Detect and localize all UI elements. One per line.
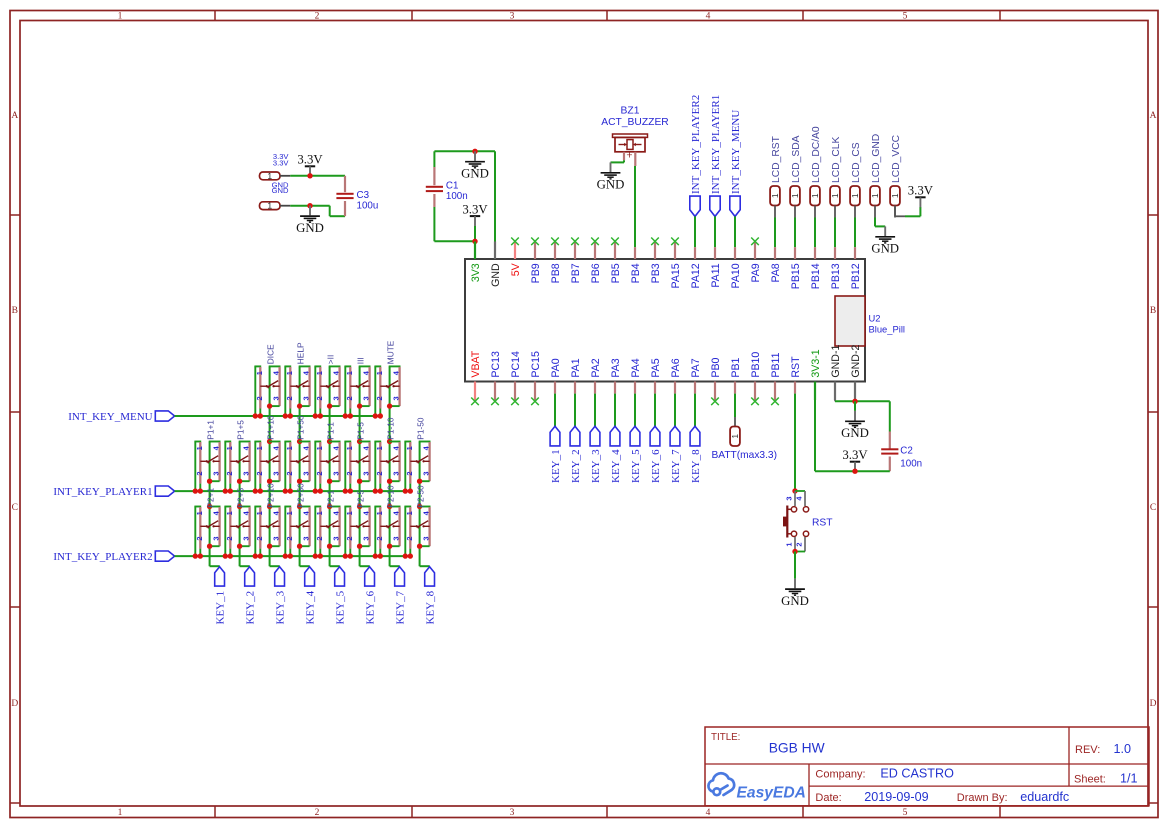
svg-text:P2-10: P2-10: [385, 485, 395, 508]
U2 pin PC13 (bottom): [490, 351, 502, 405]
U2 pin PB1 (bottom): [730, 357, 742, 400]
title block frame: [705, 727, 1149, 806]
junction column KEY_8 at row3 cap: [417, 504, 422, 509]
ground symbol (buzzer): [597, 162, 625, 191]
svg-text:1: 1: [118, 808, 123, 818]
svg-text:1: 1: [225, 511, 234, 515]
wire LCD connector x=795 to pin: [794, 218, 796, 242]
svg-text:1: 1: [255, 371, 264, 375]
svg-text:2019-09-09: 2019-09-09: [864, 790, 928, 804]
svg-text:P2-50: P2-50: [415, 485, 425, 508]
switch SW player1 "P1+50": [283, 442, 311, 494]
wire C1 loop top: [434, 150, 495, 152]
svg-text:INT_KEY_MENU: INT_KEY_MENU: [68, 411, 152, 423]
svg-text:1: 1: [267, 201, 272, 211]
svg-text:KEY_5: KEY_5: [335, 590, 347, 624]
wire GND net horizontal: [835, 400, 890, 402]
svg-text:D: D: [11, 699, 18, 709]
svg-text:1: 1: [345, 446, 354, 450]
U2 pin 3V3-1 (bottom): [810, 349, 822, 400]
junction column KEY_7 at row3 cap: [387, 504, 392, 509]
svg-text:2: 2: [345, 536, 354, 540]
svg-text:KEY_3: KEY_3: [590, 449, 602, 483]
wire INT_KEY_PLAYER2 to pin: [694, 216, 696, 241]
svg-text:3: 3: [272, 536, 281, 540]
svg-text:PB6: PB6: [590, 263, 602, 283]
svg-text:Blue_Pill: Blue_Pill: [869, 323, 905, 334]
svg-text:3: 3: [302, 471, 311, 475]
switch SW player1 "P1-10": [373, 442, 401, 494]
svg-text:3: 3: [212, 471, 221, 475]
svg-text:Date:: Date:: [815, 792, 841, 804]
wire C1 left top: [433, 151, 435, 167]
U2 pin PB13 (top): [830, 241, 842, 289]
svg-text:3: 3: [302, 536, 311, 540]
op-amp U2 body rectangle: [465, 259, 865, 382]
svg-text:2: 2: [315, 536, 324, 540]
svg-text:1: 1: [315, 511, 324, 515]
net flag KEY_3 (under U2): [590, 400, 602, 483]
svg-text:LCD_GND: LCD_GND: [871, 134, 882, 183]
junction 3V3 pin: [472, 239, 477, 244]
switch SW player1 "P1-1": [313, 442, 341, 494]
wire RST button to ground: [794, 552, 796, 579]
svg-text:3: 3: [510, 808, 515, 818]
svg-text:PB4: PB4: [630, 263, 642, 283]
svg-text:1: 1: [870, 193, 880, 198]
svg-text:1: 1: [345, 511, 354, 515]
svg-text:2: 2: [285, 471, 294, 475]
svg-text:INT_KEY_PLAYER1: INT_KEY_PLAYER1: [53, 486, 152, 498]
svg-text:1: 1: [255, 511, 264, 515]
svg-text:PA1: PA1: [570, 358, 582, 377]
frame row letters right: [1150, 111, 1157, 709]
U2 pin PB9 (top): [530, 238, 542, 284]
U2 pin PB6 (top): [590, 238, 602, 284]
svg-text:1: 1: [770, 193, 780, 198]
frame row ticks right: [1148, 215, 1158, 803]
svg-text:3: 3: [785, 496, 794, 500]
switch SW player2 "P2+50": [283, 507, 311, 559]
wire INT_KEY_MENU to pin: [734, 216, 736, 241]
svg-text:GND: GND: [597, 178, 625, 192]
U2 module outline Blue_Pill: [835, 296, 865, 346]
junction RST bottom: [792, 549, 797, 554]
svg-text:PB15: PB15: [790, 263, 802, 289]
svg-text:C: C: [1150, 503, 1156, 513]
net flag INT_KEY_MENU (top): [730, 110, 742, 217]
wire C2 top: [889, 401, 891, 431]
U2 pin PB10 (bottom): [750, 352, 762, 406]
junction column KEY_3 at row3 cap: [267, 504, 272, 509]
U2 pin PB14 (top): [810, 241, 822, 289]
svg-text:KEY_7: KEY_7: [670, 449, 682, 483]
svg-text:1: 1: [267, 171, 272, 181]
svg-text:P2+5: P2+5: [235, 488, 245, 508]
svg-text:PA15: PA15: [670, 263, 682, 288]
svg-text:PA3: PA3: [610, 358, 622, 377]
push button RST: [783, 491, 809, 552]
svg-text:A: A: [11, 111, 18, 121]
svg-text:1: 1: [345, 371, 354, 375]
svg-text:1: 1: [195, 511, 204, 515]
junction GND left: [307, 203, 312, 208]
frame column numbers bottom: [118, 808, 908, 818]
svg-text:3V3: 3V3: [470, 263, 482, 282]
svg-text:GND: GND: [871, 242, 899, 256]
U2 pin PA12 (top): [690, 241, 702, 288]
power 3.3V symbol (C1 loop): [462, 203, 488, 227]
svg-text:P1-10: P1-10: [385, 417, 395, 440]
svg-text:KEY_6: KEY_6: [365, 590, 377, 624]
capacitor C3 value labels: [357, 190, 379, 211]
capacitor C1 value labels: [446, 181, 468, 202]
svg-text:C3: C3: [357, 190, 370, 201]
power 3.3V symbol (left): [297, 153, 323, 177]
svg-text:PB14: PB14: [810, 263, 822, 289]
wire LCD connector x=775 to pin: [774, 218, 776, 242]
svg-text:1: 1: [315, 371, 324, 375]
svg-text:PC14: PC14: [510, 351, 522, 378]
svg-text:+: +: [626, 149, 632, 161]
net flag KEY_6 (under U2): [650, 400, 662, 483]
net flag KEY_1 (under U2): [550, 400, 562, 483]
svg-text:KEY_4: KEY_4: [305, 590, 317, 624]
U2 pin RST (bottom): [790, 356, 802, 400]
wire LCD connector x=855 to pin: [854, 218, 856, 242]
U2 pin PC14 (bottom): [510, 351, 522, 405]
svg-text:INT_KEY_PLAYER2: INT_KEY_PLAYER2: [690, 95, 702, 194]
svg-text:1: 1: [850, 193, 860, 198]
wire LCD_GND to ground: [875, 218, 885, 227]
svg-text:PA2: PA2: [590, 358, 602, 377]
connector LCD_DC/A0 (1-pin): [810, 126, 822, 217]
svg-text:KEY_8: KEY_8: [425, 590, 437, 624]
junction column KEY_6 at row2 cap: [357, 439, 362, 444]
svg-text:1: 1: [285, 511, 294, 515]
net flag INT_KEY_MENU: [68, 411, 174, 423]
frame row ticks left: [10, 215, 20, 803]
svg-text:B: B: [12, 306, 18, 316]
svg-text:3.3V: 3.3V: [462, 203, 488, 217]
svg-text:D: D: [1150, 699, 1157, 709]
svg-text:GND: GND: [272, 186, 289, 195]
U2 pin PA7 (bottom): [690, 358, 702, 400]
svg-text:5V: 5V: [510, 262, 522, 276]
switch SW player2 "P2-50": [403, 507, 431, 559]
svg-text:P2+10: P2+10: [265, 483, 275, 508]
switch SW player2 "P2-5": [343, 507, 371, 559]
svg-text:PA7: PA7: [690, 358, 702, 377]
svg-text:2: 2: [195, 471, 204, 475]
svg-text:1: 1: [375, 511, 384, 515]
net flag KEY_7 (under U2): [670, 400, 682, 483]
junction column KEY_7 at row2 cap: [387, 439, 392, 444]
junction 3.3V C2: [852, 469, 857, 474]
svg-text:2: 2: [405, 536, 414, 540]
svg-text:PB0: PB0: [710, 357, 722, 377]
U2 pin PA8 (top): [770, 241, 782, 282]
svg-text:P1-1: P1-1: [325, 422, 335, 440]
svg-text:P2+1: P2+1: [205, 488, 215, 508]
svg-text:PB7: PB7: [570, 263, 582, 283]
svg-text:PA4: PA4: [630, 358, 642, 377]
switch SW menu "HELP": [283, 366, 311, 418]
wire buzzer to GND: [611, 160, 625, 162]
svg-text:A: A: [1150, 111, 1157, 121]
svg-text:PB8: PB8: [550, 263, 562, 283]
svg-text:3: 3: [362, 536, 371, 540]
switch SW menu "&gt;II": [313, 366, 341, 418]
svg-text:HELP: HELP: [295, 342, 305, 364]
connector P_GND (1-pin): [260, 201, 291, 211]
svg-text:2: 2: [315, 471, 324, 475]
U2 pin PB0 (bottom): [710, 357, 722, 405]
svg-text:KEY_4: KEY_4: [610, 449, 622, 483]
wire 3.3V bottom horizontal: [815, 470, 890, 472]
svg-text:3: 3: [242, 536, 251, 540]
svg-text:BZ1: BZ1: [621, 105, 640, 116]
svg-text:P1-50: P1-50: [415, 417, 425, 440]
switch SW player1 "P1+10": [253, 442, 281, 494]
svg-text:KEY_5: KEY_5: [630, 449, 642, 483]
frame column ticks top: [215, 11, 1000, 21]
svg-text:3V3-1: 3V3-1: [810, 349, 822, 377]
switch SW menu "MUTE": [373, 366, 401, 418]
power 3.3V symbol (C2): [842, 448, 868, 472]
svg-text:3: 3: [272, 471, 281, 475]
svg-text:3: 3: [392, 396, 401, 400]
svg-text:PB10: PB10: [750, 352, 762, 378]
wire column KEY_2 vertical: [240, 442, 250, 567]
U2 pin PA0 (bottom): [550, 358, 562, 400]
switch SW menu "III": [343, 366, 371, 418]
wire GND pin riser: [494, 151, 496, 241]
frame column ticks bottom: [215, 806, 1000, 818]
U2 pin PA10 (top): [730, 241, 742, 288]
svg-text:1: 1: [785, 542, 794, 546]
svg-text:2: 2: [255, 471, 264, 475]
svg-text:2: 2: [225, 536, 234, 540]
svg-text:100u: 100u: [357, 201, 379, 212]
svg-text:1: 1: [225, 446, 234, 450]
svg-text:KEY_1: KEY_1: [550, 449, 562, 483]
svg-text:P1+5: P1+5: [235, 420, 245, 440]
svg-text:3: 3: [272, 396, 281, 400]
svg-text:INT_KEY_PLAYER1: INT_KEY_PLAYER1: [710, 95, 722, 194]
svg-text:DICE: DICE: [265, 344, 275, 364]
U2 pin GND-1 (bottom): [830, 345, 842, 400]
svg-text:ACT_BUZZER: ACT_BUZZER: [601, 117, 669, 128]
connector LCD_VCC (1-pin): [890, 134, 902, 217]
svg-text:U2: U2: [869, 313, 881, 324]
U2 pin PB4 (top): [630, 241, 642, 283]
wire RST pin to button: [794, 400, 796, 491]
svg-text:C1: C1: [446, 181, 459, 192]
svg-text:3: 3: [242, 471, 251, 475]
capacitor C1: [426, 167, 443, 207]
svg-text:PB1: PB1: [730, 357, 742, 377]
connector P_GND labels: [272, 180, 289, 195]
wire column KEY_8 vertical: [420, 442, 430, 567]
svg-text:PA6: PA6: [670, 358, 682, 377]
svg-text:3: 3: [332, 471, 341, 475]
svg-text:2: 2: [345, 471, 354, 475]
svg-text:GND: GND: [841, 426, 869, 440]
svg-text:100n: 100n: [446, 191, 468, 202]
switch SW player2 "P2+1": [193, 507, 221, 559]
net flag INT_KEY_PLAYER2: [53, 551, 174, 563]
net flag KEY_5 (under U2): [630, 400, 642, 483]
svg-text:1/1: 1/1: [1120, 772, 1138, 786]
svg-text:PA12: PA12: [690, 263, 702, 288]
svg-text:2: 2: [255, 536, 264, 540]
junction column KEY_4 at row2 cap: [297, 439, 302, 444]
wire bus INT_KEY_PLAYER1: [175, 490, 411, 492]
svg-text:2: 2: [315, 12, 320, 22]
svg-text:1: 1: [285, 446, 294, 450]
junction GND-2: [852, 399, 857, 404]
net flag KEY_4 (under U2): [610, 400, 622, 483]
U2 pin PB11 (bottom): [770, 352, 782, 405]
svg-text:1: 1: [118, 12, 123, 22]
U2 pin PC15 (bottom): [530, 351, 542, 405]
svg-text:P2+50: P2+50: [295, 483, 305, 508]
buzzer BZ1 labels: [601, 105, 669, 127]
net flag KEY_8 (under U2): [690, 400, 702, 483]
svg-text:2: 2: [795, 542, 804, 546]
wire column KEY_6 vertical: [360, 366, 370, 566]
svg-text:eduardfc: eduardfc: [1020, 790, 1069, 804]
svg-text:2: 2: [375, 471, 384, 475]
svg-text:BATT(max3.3): BATT(max3.3): [712, 450, 777, 461]
net flag KEY_4 (matrix): [305, 567, 317, 625]
svg-text:PA8: PA8: [770, 263, 782, 282]
svg-text:1: 1: [255, 446, 264, 450]
svg-text:KEY_6: KEY_6: [650, 449, 662, 483]
svg-text:INT_KEY_PLAYER2: INT_KEY_PLAYER2: [53, 551, 152, 563]
svg-text:3.3V: 3.3V: [908, 184, 934, 198]
connector LCD_GND (1-pin): [870, 134, 882, 218]
svg-text:REV:: REV:: [1075, 744, 1100, 756]
connector BATT(max3.3): [712, 427, 777, 461]
connector LCD_CLK (1-pin): [830, 137, 842, 218]
net flag KEY_8 (matrix): [425, 567, 437, 625]
svg-text:>II: >II: [325, 355, 335, 364]
svg-text:P1-5: P1-5: [355, 422, 365, 440]
svg-text:PA11: PA11: [710, 263, 722, 287]
svg-text:PB9: PB9: [530, 263, 542, 283]
wire column KEY_4 vertical: [300, 366, 310, 566]
svg-text:2: 2: [375, 396, 384, 400]
switch SW player2 "P2-1": [313, 507, 341, 559]
wire GND-2 join: [854, 400, 856, 401]
svg-text:2: 2: [405, 471, 414, 475]
U2 pin 5V (top): [510, 238, 522, 277]
svg-text:1: 1: [890, 193, 900, 198]
U2 pin GND (top): [490, 242, 502, 287]
switch SW player1 "P1+5": [223, 442, 251, 494]
U2 pin PB5 (top): [610, 238, 622, 284]
svg-text:Drawn By:: Drawn By:: [957, 792, 1008, 804]
svg-text:1: 1: [830, 193, 840, 198]
U2 pin PA5 (bottom): [650, 358, 662, 400]
svg-text:RST: RST: [790, 356, 802, 378]
svg-text:1.0: 1.0: [1114, 742, 1132, 756]
svg-text:2: 2: [195, 536, 204, 540]
junction column KEY_1 at row3 cap: [207, 504, 212, 509]
wire column KEY_7 vertical: [390, 366, 400, 566]
svg-text:KEY_3: KEY_3: [275, 590, 287, 624]
svg-text:1: 1: [375, 446, 384, 450]
svg-text:KEY_8: KEY_8: [690, 449, 702, 483]
svg-text:PA0: PA0: [550, 358, 562, 377]
svg-text:3: 3: [422, 471, 431, 475]
U2 pin 3V3 (top): [470, 242, 482, 283]
svg-text:PA10: PA10: [730, 263, 742, 288]
U2 pin GND-2 (bottom): [850, 345, 862, 400]
svg-text:3.3V: 3.3V: [842, 448, 868, 462]
junction column KEY_4 at row3 cap: [297, 504, 302, 509]
buzzer BZ1: [613, 134, 648, 166]
junction 3.3V left: [307, 173, 312, 178]
connector LCD_CS (1-pin): [850, 142, 862, 217]
svg-text:5: 5: [903, 12, 908, 22]
U2 pin PA9 (top): [750, 238, 762, 283]
svg-text:1: 1: [195, 446, 204, 450]
wire column KEY_1 vertical: [210, 442, 220, 567]
switch SW player2 "P2+10": [253, 507, 281, 559]
U2 pin PA15 (top): [670, 238, 682, 289]
svg-text:RST: RST: [812, 517, 833, 528]
wire C1 left bottom: [434, 207, 475, 241]
ground symbol (C1 loop): [461, 151, 489, 180]
svg-text:GND: GND: [296, 221, 324, 235]
svg-text:PB3: PB3: [650, 263, 662, 283]
svg-text:GND-1: GND-1: [830, 345, 842, 378]
svg-text:2: 2: [315, 808, 320, 818]
svg-text:LCD_CS: LCD_CS: [851, 142, 862, 183]
svg-text:B: B: [1150, 306, 1156, 316]
svg-text:PA9: PA9: [750, 263, 762, 282]
svg-text:3: 3: [362, 471, 371, 475]
svg-text:KEY_2: KEY_2: [570, 449, 582, 483]
svg-text:INT_KEY_MENU: INT_KEY_MENU: [730, 110, 742, 194]
svg-text:1: 1: [790, 193, 800, 198]
frame column numbers top: [118, 12, 908, 22]
svg-text:PB13: PB13: [830, 263, 842, 289]
svg-text:3: 3: [392, 471, 401, 475]
wire bus INT_KEY_PLAYER2: [175, 555, 411, 557]
svg-text:TITLE:: TITLE:: [711, 732, 740, 743]
svg-text:1: 1: [375, 371, 384, 375]
svg-text:MUTE: MUTE: [385, 340, 395, 364]
svg-text:PC13: PC13: [490, 351, 502, 378]
svg-text:PB11: PB11: [770, 352, 782, 377]
wire 3V3-1 riser: [814, 400, 816, 471]
U2 pin PB7 (top): [570, 238, 582, 284]
capacitor C2: [881, 432, 898, 472]
svg-text:2: 2: [225, 471, 234, 475]
svg-text:2: 2: [315, 396, 324, 400]
svg-text:PC15: PC15: [530, 351, 542, 378]
frame row letters left: [11, 111, 18, 709]
svg-text:GND-2: GND-2: [850, 345, 862, 378]
connector P_3V3 labels: [273, 152, 290, 167]
wire LCD connector x=815 to pin: [814, 218, 816, 242]
svg-text:2: 2: [285, 396, 294, 400]
svg-text:2: 2: [285, 536, 294, 540]
